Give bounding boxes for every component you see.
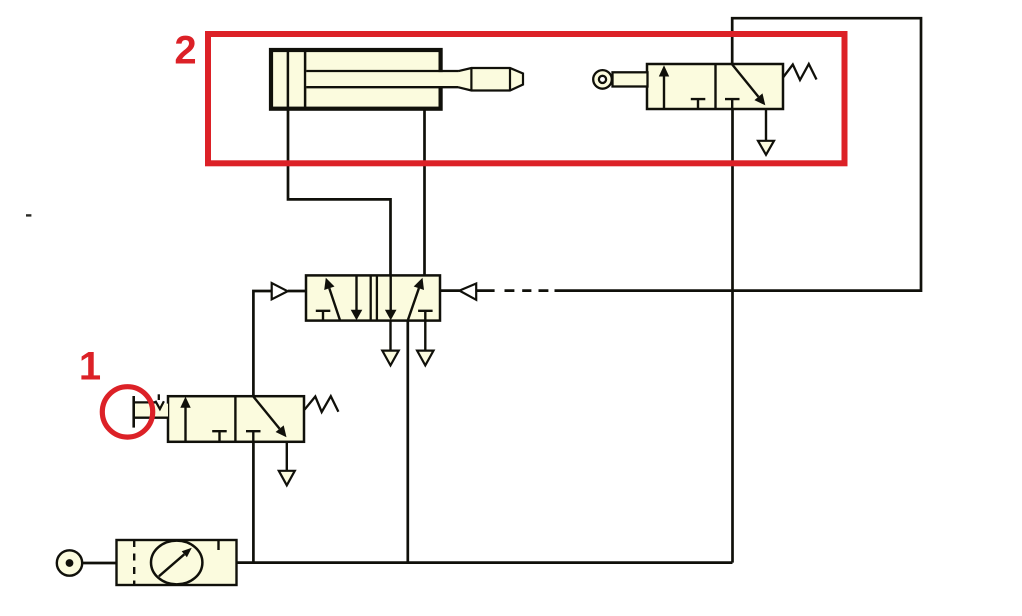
cylinder 1A1 piston rod [306, 71, 458, 87]
valve 1S1 push-button 3/2 body [168, 396, 304, 442]
valve 2S1 roller wheel [593, 70, 612, 89]
wire W5 valve 1 supply down to main line [252, 441, 255, 563]
valve 1S1 flow arrow up [180, 397, 190, 442]
red annotation box 2 [208, 34, 845, 163]
valve 2S1 exhaust diagonal with arrow [732, 65, 765, 106]
valve 1S1 exhaust silencer triangle [279, 442, 295, 486]
valve 1V1 left pilot triangle [272, 283, 288, 299]
valve 1V1 left square diagonal arrow 1 to 4 [324, 278, 340, 321]
valve 1V1 right square blocked T port 3 [418, 311, 433, 321]
wire W1 cylinder left port to 5/2 port 4 [288, 108, 391, 277]
valve 1V1 right square diagonal arrow 1 to 2 [408, 278, 424, 321]
wire W6 main supply line [236, 561, 733, 564]
wire W12 source to service unit [81, 562, 118, 565]
red annotation circle 1 [102, 387, 152, 437]
valve 2S1 flow arrow up [659, 65, 669, 109]
valve 2S1 blocked port T left [691, 99, 706, 109]
cylinder 1A1 body [271, 50, 441, 109]
valve 1V1 exhaust 5 triangle [382, 321, 398, 366]
valve 2S1 blocked port T right [725, 99, 740, 109]
valve 1V1 5/2 pilot valve body [306, 275, 440, 320]
valve 2S1 exhaust silencer triangle [758, 109, 774, 155]
valve 2S1 spring [783, 64, 817, 80]
valve 2S1 roller lever 3/2 body [647, 64, 783, 109]
service unit 0Z2 with gauge [117, 540, 237, 585]
wire W9 roller valve output loop top and right [555, 18, 922, 290]
stray dash mark [26, 214, 31, 216]
wire W11 short stub right pilot to triangle [441, 289, 460, 292]
valve 1V1 right square down arrow 4 to 5 [385, 276, 397, 321]
cylinder 1A1 trip cam lug [459, 68, 524, 91]
wire W7 5/2 supply port 1 down to main line [406, 319, 409, 563]
wire W3 pilot elbow from 5/2 left pilot down to valve 1 output [253, 291, 272, 397]
valve 1S1 blocked port T left [212, 431, 227, 442]
wire W8 roller valve supply down to main line [731, 108, 734, 563]
svg-text:1: 1 [79, 345, 101, 389]
valve 1S1 blocked port T right [246, 431, 261, 442]
valve 1S1 exhaust diagonal with arrow [253, 397, 286, 438]
compressed air source 0Z1 [57, 550, 82, 575]
valve 1S1 push button actuator [134, 394, 168, 427]
wire W4 short pilot stub left [288, 290, 307, 293]
cylinder 1A1 piston [288, 52, 305, 108]
valve 1V1 left square down arrow 2 to 3 [351, 276, 363, 321]
valve 1S1 spring [305, 396, 339, 412]
valve 1V1 left square blocked T port 5 [316, 311, 331, 321]
wire W2 cylinder right port to 5/2 port 2 [423, 108, 426, 277]
svg-text:2: 2 [174, 29, 196, 73]
valve 1V1 right pilot triangle [459, 284, 476, 300]
wire W10 dashed pilot segment [476, 289, 548, 292]
valve 2S1 roller actuator stem [613, 72, 648, 86]
valve 1V1 exhaust 3 triangle [417, 321, 433, 366]
